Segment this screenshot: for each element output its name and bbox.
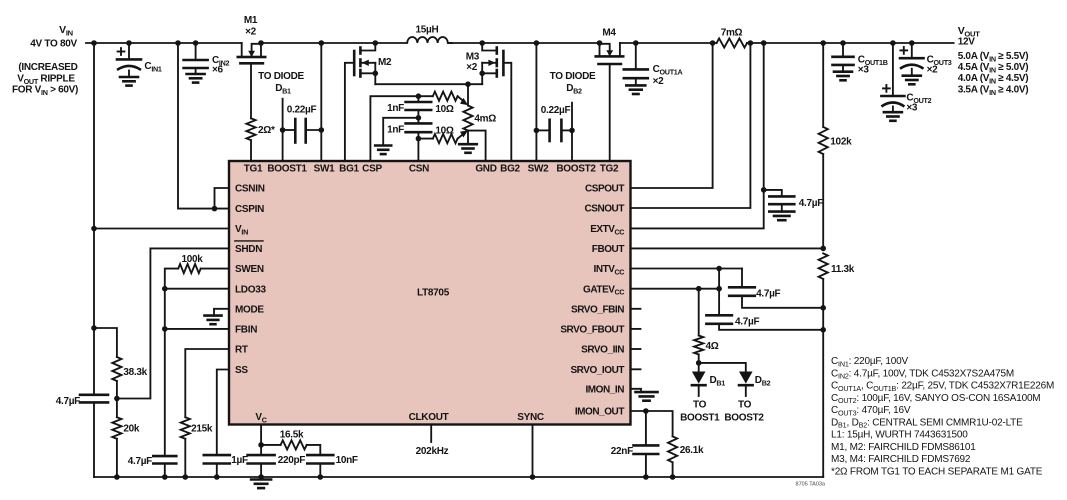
pin stub SRVO_IIN <box>631 348 641 350</box>
svg-text:LDO33: LDO33 <box>235 284 266 295</box>
svg-text:202kHz: 202kHz <box>416 446 449 457</box>
transistor M4 (output top switch) <box>599 43 601 56</box>
svg-text:TG1: TG1 <box>244 164 263 175</box>
capacitor 0.22uF (boost2) <box>548 120 551 141</box>
resistor RS 7m ohm (output sense) <box>717 38 747 47</box>
wire 4m ohm bottom to ground <box>467 131 469 145</box>
svg-text:4.7µF: 4.7µF <box>128 456 152 467</box>
wire M1 gate lead <box>250 63 252 118</box>
transistor M3 (boost top sync switch, x2) <box>482 43 497 51</box>
svg-text:IMON_OUT: IMON_OUT <box>575 407 625 418</box>
node dot M4 source rail <box>597 40 603 46</box>
wire cap2 bottom to ground vertical <box>719 324 823 330</box>
svg-text:×6: ×6 <box>212 65 224 76</box>
svg-text:(INCREASED: (INCREASED <box>18 62 77 73</box>
capacitor COUT3 <box>911 43 913 58</box>
resistor 2 ohm (TG1 gate) <box>246 118 255 140</box>
svg-text:M3, M4: FAIRCHILD FDMS7692: M3, M4: FAIRCHILD FDMS7692 <box>831 454 971 465</box>
plus sign COUT2 <box>883 87 890 89</box>
svg-text:BG1: BG1 <box>339 164 359 175</box>
svg-text:11.3k: 11.3k <box>831 264 855 275</box>
node dot CSPOUT rail <box>710 40 716 46</box>
svg-text:COUT1A​, COUT1B​: 22µF, 25V, T: COUT1A​, COUT1B​: 22µF, 25V, TDK C4532X7… <box>831 381 1054 393</box>
svg-text:7mΩ: 7mΩ <box>721 28 743 39</box>
svg-text:SHDN: SHDN <box>235 244 262 255</box>
svg-text:M1, M2: FAIRCHILD FDMS86101: M1, M2: FAIRCHILD FDMS86101 <box>831 442 976 453</box>
svg-text:1nF: 1nF <box>387 125 404 136</box>
ground CIN2 <box>195 68 197 74</box>
wire SHDN to divider tap <box>117 248 229 398</box>
capacitor 4.7uF (INTVCC) <box>729 286 755 289</box>
wire DB1 stub <box>282 99 284 130</box>
svg-text:TO DIODE: TO DIODE <box>258 71 304 82</box>
node dot FBOUT <box>820 246 826 252</box>
resistor 102k <box>819 127 828 154</box>
svg-text:38.3k: 38.3k <box>123 367 147 378</box>
capacitor 1uF (SS) <box>204 454 230 457</box>
svg-text:CSNOUT: CSNOUT <box>584 204 624 215</box>
resistor 20k <box>112 417 121 439</box>
svg-text:BOOST1: BOOST1 <box>680 413 720 424</box>
node dot CIN2 rail <box>193 40 199 46</box>
svg-text:BOOST2: BOOST2 <box>556 164 596 175</box>
wire 22nF to rail <box>645 454 647 477</box>
capacitor COUT1A <box>635 43 637 69</box>
svg-text:215k: 215k <box>191 424 213 435</box>
svg-text:0.22µF: 0.22µF <box>541 105 571 116</box>
wire 4 ohm lead <box>698 289 700 336</box>
resistor 4m ohm sense <box>463 106 472 131</box>
capacitor 4.7uF (EXTVCC) <box>769 195 794 198</box>
node dot BOOST2/cap <box>569 128 575 134</box>
svg-text:×3: ×3 <box>858 65 870 76</box>
svg-text:×3: ×3 <box>906 103 918 114</box>
svg-text:8705 TA03a: 8705 TA03a <box>796 482 826 488</box>
plus sign COUT3 <box>900 49 907 51</box>
pin stub SRVO_FBOUT <box>631 328 641 330</box>
node dot CSPIN rail <box>175 40 181 46</box>
svg-text:MODE: MODE <box>235 304 264 315</box>
node dot cap2 return <box>820 327 826 333</box>
node dot GATEVCC 4ohm <box>696 286 702 292</box>
wire mid node to ground <box>383 118 418 146</box>
wire 0.22uF left lead <box>283 129 296 131</box>
svg-text:BOOST1: BOOST1 <box>267 164 307 175</box>
wire 0.22uF right lead <box>306 129 322 131</box>
wire 20k to rail <box>116 439 118 477</box>
node dot M2 drain rail <box>373 40 379 46</box>
wire BOOST2 pin drop <box>571 130 573 161</box>
resistor 16.5k <box>281 440 307 449</box>
resistor 100k (SWEN) <box>178 264 201 273</box>
wire VIN pin <box>94 228 229 230</box>
node dot M3 drain rail <box>479 40 485 46</box>
wire SW2 pin drop <box>535 43 537 161</box>
capacitor CIN2 <box>195 43 197 60</box>
wire INTVCC-GATEVCC link <box>718 269 720 316</box>
node dot VC <box>258 442 264 448</box>
svg-text:M3: M3 <box>466 52 480 63</box>
wire CSNIN <box>215 188 230 209</box>
svg-text:0.22µF: 0.22µF <box>287 104 317 115</box>
svg-text:16.5k: 16.5k <box>280 430 304 441</box>
svg-text:4mΩ: 4mΩ <box>474 114 496 125</box>
wire 4 ohm to diodes <box>698 355 700 363</box>
wire SW2 node rail segment <box>448 42 600 44</box>
svg-text:CSN: CSN <box>409 164 429 175</box>
wire M2 gate lead to BG1 <box>345 63 354 161</box>
svg-text:FBIN: FBIN <box>235 325 257 336</box>
svg-text:SW2: SW2 <box>528 164 550 175</box>
svg-text:GND: GND <box>475 164 496 175</box>
wire 0.22uF right cap right lead <box>561 129 572 131</box>
ground COUT2 <box>892 107 894 113</box>
wire SW1 pin drop <box>320 43 322 161</box>
node dot SW1 drop <box>319 40 325 46</box>
node dot SW2/cap <box>534 128 540 134</box>
node dot bottom rail LDO33 cap <box>162 474 168 480</box>
node dot 4m ohm top <box>465 81 471 87</box>
ground sense mid <box>375 144 391 147</box>
node dot CIN1 rail <box>126 40 132 46</box>
node dot divider tap <box>114 396 120 402</box>
wire RT lead <box>185 349 229 417</box>
resistor 215k (RT) <box>181 417 190 439</box>
resistor 38.3k <box>112 357 121 381</box>
node dot BOOST1/cap <box>280 127 286 133</box>
resistor 26.1k <box>668 436 677 462</box>
capacitor 1nF (lower) <box>406 122 432 125</box>
node dot M2 source <box>373 71 379 77</box>
wire EXTVCC <box>631 43 764 228</box>
wire SYNC to ground rail <box>532 425 534 478</box>
wire 215k to rail <box>184 439 186 477</box>
svg-text:BOOST2: BOOST2 <box>724 413 764 424</box>
svg-text:22nF: 22nF <box>611 446 633 457</box>
wire 26.1k branch <box>646 411 673 436</box>
wire 38.3k to tap <box>116 381 118 399</box>
svg-text:COUT2​: 100µF, 16V, SANYO OS-C: COUT2​: 100µF, 16V, SANYO OS-CON 16SA100… <box>831 393 1040 405</box>
pin stub SRVO_IOUT <box>631 368 641 370</box>
ground CIN1 <box>128 71 130 78</box>
wire VOUT rail segment (to output) <box>747 42 954 44</box>
svg-text:220pF: 220pF <box>278 455 306 466</box>
wire 16.5k to 10nF <box>307 445 321 455</box>
node dot bottom rail 220pF <box>258 474 264 480</box>
node dot bottom rail 1uF <box>214 474 220 480</box>
diode DB2 <box>739 372 753 384</box>
resistor 10 ohm (CSP) <box>433 92 458 101</box>
op-amp/controller IC U1 LT8705 body <box>229 161 631 425</box>
svg-text:SRVO_FBOUT: SRVO_FBOUT <box>560 325 624 336</box>
node dot bottom rail 22nF <box>643 474 649 480</box>
wire 38.3k branch <box>94 328 117 357</box>
svg-text:*2Ω FROM TG1 TO EACH SEPARATE: *2Ω FROM TG1 TO EACH SEPARATE M1 GATE <box>831 466 1043 477</box>
svg-text:SRVO_IIN: SRVO_IIN <box>581 345 624 356</box>
wire FBIN pin <box>165 328 229 330</box>
svg-text:15µH: 15µH <box>416 25 439 36</box>
resistor 11.3k <box>819 253 828 279</box>
wire CSNOUT <box>631 43 751 208</box>
node dot CSNIN/CSPIN <box>212 206 218 212</box>
node dot IMON_OUT <box>643 408 649 414</box>
wire BOOST1 pin drop <box>282 130 284 161</box>
svg-text:12V: 12V <box>958 37 976 48</box>
wire 26.1k to rail <box>672 462 674 477</box>
wire CSN row <box>417 132 419 138</box>
svg-text:L1: 15µH, WURTH 7443631500: L1: 15µH, WURTH 7443631500 <box>831 430 968 441</box>
node dot rail / left vertical <box>91 40 97 46</box>
wire M4 gate lead to TG2 <box>609 64 611 161</box>
wire FBOUT <box>631 247 824 249</box>
node dot M1 source / SW1 rail <box>258 40 264 46</box>
svg-text:4.7µF: 4.7µF <box>735 317 759 328</box>
wire 10nF to rail <box>319 464 321 478</box>
node dot 38.3k branch <box>91 325 97 331</box>
svg-text:10nF: 10nF <box>336 455 358 466</box>
node dot COUT3 rail <box>909 40 915 46</box>
inductor L1 15uH <box>448 42 453 44</box>
svg-text:M1: M1 <box>244 15 258 26</box>
svg-text:10Ω: 10Ω <box>435 104 454 115</box>
svg-text:SS: SS <box>235 365 248 376</box>
wire left VIN vertical (rail to 4.7uF) <box>93 43 95 395</box>
resistor 10 ohm (CSN) <box>433 134 458 143</box>
wire CSPIN to VIN rail <box>178 43 229 209</box>
capacitor 220pF <box>260 445 262 455</box>
svg-text:SRVO_IOUT: SRVO_IOUT <box>570 365 624 376</box>
svg-text:M4: M4 <box>602 28 616 39</box>
wire CSPOUT <box>631 43 713 188</box>
wire mid node <box>417 110 419 123</box>
svg-text:CSP: CSP <box>362 164 382 175</box>
wire bottom ground rail <box>94 476 823 478</box>
svg-text:IMON_IN: IMON_IN <box>585 384 624 395</box>
capacitor 10nF <box>307 454 333 457</box>
node dot VIN pin / left vertical <box>91 226 97 232</box>
node dot bottom rail 215k <box>183 474 189 480</box>
svg-text:SRVO_FBIN: SRVO_FBIN <box>571 304 624 315</box>
svg-text:×2: ×2 <box>653 76 665 87</box>
capacitor 4.7uF (VIN) <box>80 393 108 396</box>
node dot FBIN <box>162 326 168 332</box>
svg-text:M2: M2 <box>378 57 392 68</box>
wire INTVCC <box>631 268 743 270</box>
wire 1uF to rail <box>216 464 218 478</box>
capacitor 4.7uF (LDO33) <box>153 455 176 458</box>
wire 4.7uF LDO33 to rail <box>164 464 166 478</box>
node dot GATEVCC link <box>716 286 722 292</box>
svg-text:SW1: SW1 <box>314 164 336 175</box>
svg-text:4V TO 80V: 4V TO 80V <box>30 39 77 50</box>
svg-text:10Ω: 10Ω <box>435 125 454 136</box>
svg-text:1µF: 1µF <box>231 455 248 466</box>
wire VIN cap to rail <box>93 402 95 477</box>
node dot bottom rail 20k <box>114 474 120 480</box>
svg-text:SWEN: SWEN <box>235 264 264 275</box>
node dot SW1/cap <box>319 127 325 133</box>
node dot CSP row <box>416 93 422 99</box>
svg-text:4.7µF: 4.7µF <box>756 289 780 300</box>
ground EXTVCC cap <box>781 204 783 211</box>
svg-text:20k: 20k <box>123 424 140 435</box>
node dot INTVCC <box>716 266 722 272</box>
wire CLKOUT stub <box>430 425 432 443</box>
wire SW1 node rail segment <box>261 42 407 44</box>
wire INTVCC to cap1 <box>741 269 743 288</box>
pin stub SRVO_FBIN <box>631 308 641 310</box>
node dot mid <box>416 115 422 121</box>
svg-text:CSPOUT: CSPOUT <box>585 184 624 195</box>
transistor M1 (top switch, x2) <box>241 43 243 57</box>
wire COUT2 drop <box>892 43 894 96</box>
node dot bottom rail 26.1k <box>670 474 676 480</box>
wire CSP row <box>370 96 418 161</box>
wire IMON_OUT <box>631 410 646 412</box>
node dot CSNOUT rail <box>748 40 754 46</box>
wire 0.22uF right cap left lead <box>536 129 549 131</box>
wire 4m ohm bottom to GND pin <box>468 131 486 161</box>
capacitor CIN1 <box>128 43 130 59</box>
wire DB2 stub <box>571 103 573 131</box>
wire LDO33 vertical <box>164 289 166 456</box>
svg-text:26.1k: 26.1k <box>680 445 704 456</box>
svg-text:1nF: 1nF <box>387 103 404 114</box>
svg-text:100k: 100k <box>181 254 203 265</box>
node dot M3 source <box>479 71 485 77</box>
svg-text:CSPIN: CSPIN <box>235 204 264 215</box>
wire VC pin <box>260 425 262 445</box>
ground MODE <box>214 309 229 316</box>
capacitor 4.7uF (GATEVCC) <box>706 314 732 317</box>
wire VOUT rail segment (M4 to 7m ohm) <box>620 42 717 44</box>
capacitor COUT1B <box>842 43 844 57</box>
svg-text:×2: ×2 <box>245 27 257 38</box>
wire VIN rail segment (input side) <box>86 42 242 44</box>
wire SS lead <box>217 370 229 456</box>
transistor M2 (buck bottom switch) <box>360 43 375 51</box>
diode DB1 <box>698 363 700 372</box>
wire M3 gate lead to BG2 <box>503 63 511 161</box>
ground 4m ohm <box>459 143 477 146</box>
svg-text:4Ω: 4Ω <box>706 341 719 352</box>
ground COUT1A <box>635 78 637 85</box>
wire SWEN lead <box>201 268 229 270</box>
wire cap1 bottom to 11.3k node <box>742 296 823 308</box>
sense arrow to 4m ohm bottom <box>458 133 465 138</box>
svg-text:FBOUT: FBOUT <box>592 244 625 255</box>
node dot EXTVCC cap <box>761 187 767 193</box>
wire 100k to LDO33 node <box>165 269 178 289</box>
svg-text:2Ω*: 2Ω* <box>258 125 275 136</box>
svg-text:RT: RT <box>235 345 248 356</box>
node dot SYNC rail <box>530 474 536 480</box>
node dot COUT1B rail <box>840 40 846 46</box>
node dot COUT2 rail <box>890 40 896 46</box>
ground COUT1B <box>842 65 844 72</box>
ground IMON_IN <box>631 389 642 392</box>
ground below rail at VC <box>260 477 262 480</box>
wire TG1 pin <box>250 140 252 161</box>
capacitor COUT2 <box>881 95 904 98</box>
resistor 4 ohm <box>694 336 703 355</box>
svg-text:BG2: BG2 <box>500 164 520 175</box>
node dot diode branch <box>696 360 702 366</box>
svg-text:TO: TO <box>738 400 752 411</box>
node dot LDO33 <box>162 286 168 292</box>
wire LDO33 pin <box>165 288 229 290</box>
wire 4m ohm top lead <box>467 84 469 105</box>
node dot bottom rail 10nF <box>318 474 324 480</box>
wire EXTVCC cap lead <box>764 190 782 197</box>
capacitor 0.22uF (boost1) <box>294 119 297 143</box>
svg-text:4.7µF: 4.7µF <box>56 396 80 407</box>
svg-text:CIN2​: 4.7µF, 100V, TDK C4532X: CIN2​: 4.7µF, 100V, TDK C4532X7S2A475M <box>831 368 1014 380</box>
svg-text:CSNIN: CSNIN <box>235 184 265 195</box>
svg-text:×2: ×2 <box>466 62 478 73</box>
svg-text:4.7µF: 4.7µF <box>799 198 823 209</box>
svg-text:×2: ×2 <box>927 65 939 76</box>
node dot 11.3k bottom <box>820 305 826 311</box>
wire 220pF to rail <box>260 464 262 478</box>
node dot SW2 drop <box>534 40 540 46</box>
wire ground vertical right <box>822 308 824 477</box>
node dot CSN row <box>416 136 422 142</box>
sense arrow to 4m ohm top <box>458 96 465 102</box>
node dot EXTVCC rail <box>761 40 767 46</box>
plus sign CIN1 <box>118 51 125 53</box>
svg-text:102k: 102k <box>830 137 852 148</box>
node dot COUT1A rail <box>633 40 639 46</box>
svg-text:CLKOUT: CLKOUT <box>409 412 449 423</box>
wire DB2 branch <box>699 363 746 372</box>
wire M2-M3 source link <box>375 83 482 85</box>
capacitor 22nF <box>645 411 647 445</box>
capacitor 1nF (upper) <box>417 96 419 102</box>
svg-text:TO: TO <box>693 400 707 411</box>
wire GATEVCC <box>631 288 720 290</box>
svg-text:TG2: TG2 <box>600 164 619 175</box>
ground COUT3 <box>911 69 913 76</box>
svg-text:LT8705: LT8705 <box>417 288 450 299</box>
svg-text:TO DIODE: TO DIODE <box>550 71 596 82</box>
node dot 102k rail <box>820 40 826 46</box>
svg-text:SYNC: SYNC <box>517 412 544 423</box>
